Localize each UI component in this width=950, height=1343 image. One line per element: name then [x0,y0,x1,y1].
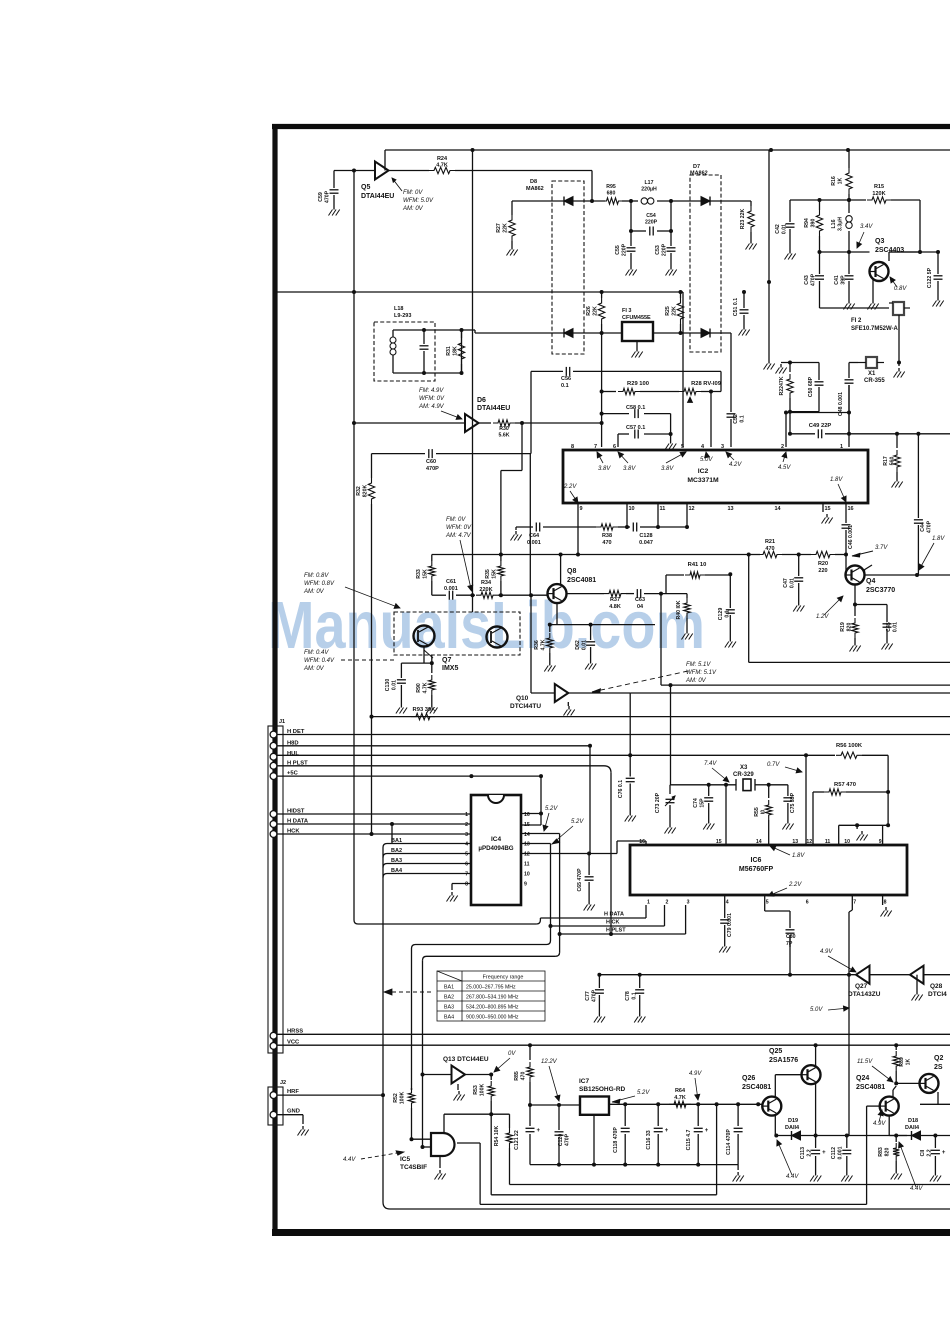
long wire y=292 from frame [277,291,683,293]
svg-text:C55: C55 [615,245,621,255]
wire R34 row down to Q7b [472,595,474,612]
svg-text:8: 8 [884,900,887,906]
svg-text:2SC3770: 2SC3770 [866,587,895,594]
capacitor C111 2.2 electrolytic [934,1136,936,1149]
svg-text:C78: C78 [625,991,631,1001]
svg-text:C54: C54 [646,213,656,219]
svg-text:0.01: 0.01 [581,640,587,650]
svg-text:R90: R90 [416,683,422,693]
IC IC7 SB1250HG-RD [580,1097,609,1115]
IC IC2 MC3371M [563,450,868,503]
transistor Q10 DTC144TU buffer [555,684,569,702]
capacitor C46 0.001 at pin16 [845,503,847,523]
svg-text:1.8V: 1.8V [792,853,805,859]
ground below R19 [854,642,856,646]
resistor R30 5.6K [479,422,492,424]
svg-text:X1: X1 [868,371,876,377]
svg-text:C128: C128 [639,533,652,539]
svg-text:4.5V: 4.5V [778,465,791,471]
wire y=252 Q3 base row [820,251,870,253]
transistor Q4 2SC3770 [846,566,865,585]
svg-text:9: 9 [524,882,527,888]
wire IC2 pin2 riser to C48 column [785,413,787,448]
wire R28 right corner down to IC2 pin4 [720,371,722,391]
svg-text:C44: C44 [920,522,926,532]
svg-text:R94: R94 [804,218,810,228]
svg-text:FM: 0.8V: FM: 0.8V [304,573,329,579]
AND gate IC5 TC4581F [431,1133,455,1156]
inductor L17 220uH [641,198,647,204]
svg-text:C130: C130 [385,679,391,692]
svg-text:DTCI4: DTCI4 [928,991,947,998]
svg-text:SB125OHG-RD: SB125OHG-RD [579,1086,626,1093]
wire R54 bottom staircase [510,1184,950,1186]
svg-text:534.200–800.895 MHz: 534.200–800.895 MHz [466,1005,519,1011]
wire from FI2 down to X1 crystal [898,315,900,363]
svg-text:0.7V: 0.7V [767,762,780,768]
connector pin H8D [270,742,277,749]
connector pin HRF [270,1092,277,1099]
resistor R89 1K [895,1045,897,1050]
resistor R20 220 [811,551,835,557]
ground below C73 [669,824,671,828]
svg-text:3: 3 [465,832,468,838]
resistor R64 4.7K [669,1101,691,1107]
IC6 pin8 ground [882,895,884,905]
transistor Q5 DTA144EU (digital) [375,162,389,180]
ground below C45 [886,640,888,644]
svg-text:H PLST: H PLST [606,928,626,934]
svg-text:IC7: IC7 [579,1078,590,1085]
ground below x=769 wire [768,360,770,364]
vertical wire x=354 from D6 row down to route [353,423,355,920]
resistor R57 470 row [813,791,824,793]
Q4 collector wire right [864,565,872,570]
svg-text:MA862: MA862 [526,186,544,192]
ground below C125 [729,638,731,642]
svg-text:470: 470 [602,540,611,546]
wire R93 row y=716.6 [372,716,950,718]
svg-text:R83: R83 [878,1147,884,1157]
svg-text:D7: D7 [693,164,700,170]
svg-text:C79 0.001: C79 0.001 [727,913,733,937]
svg-text:5.6K: 5.6K [499,433,510,439]
svg-text:0V: 0V [508,1051,516,1057]
svg-text:R29 100: R29 100 [627,381,649,387]
connector pin HCK [270,831,277,838]
vertical wire x=530.3 Q8 base column [529,454,531,596]
Q4 base wire [845,555,847,576]
svg-text:+: + [665,1128,669,1134]
svg-text:5: 5 [465,852,468,858]
capacitor C49 22P [788,432,792,436]
svg-text:15K: 15K [422,569,428,579]
svg-text:120K: 120K [872,191,885,197]
schematic border frame [272,124,277,1234]
ceramic filter FI3 CFUM455E [622,322,653,341]
svg-text:220K: 220K [479,587,492,593]
svg-text:FI 3: FI 3 [622,308,631,314]
resistor R38 470 [596,524,618,530]
svg-text:WFM: 0.8V: WFM: 0.8V [304,581,335,587]
ground at IC6 pin10 area [856,825,858,829]
wire route y=944.5 from IC4 pin13 to IC6 pin2 and R52 [412,945,416,949]
svg-text:C75 39P: C75 39P [790,792,796,813]
capacitor C56 0.1 wire [531,370,563,372]
svg-text:100K: 100K [399,1092,405,1105]
svg-text:Frequency range: Frequency range [483,975,524,981]
wire Q13 output [465,1074,491,1076]
capacitor C74 15P [708,785,710,796]
svg-text:5: 5 [766,900,769,906]
svg-text:C52: C52 [733,414,739,424]
svg-text:DAII4: DAII4 [905,1125,920,1131]
capacitor C59 470P [334,170,354,172]
svg-text:D62: D62 [575,640,581,650]
resistor R26 22K [601,292,603,298]
svg-text:FM: 0V: FM: 0V [403,190,423,196]
connector pin HRSS [270,1032,277,1039]
svg-text:15: 15 [716,839,722,845]
vertical wire x=472.5 from top rail down to mixer row [472,150,474,595]
svg-text:390: 390 [810,219,816,228]
ground at end of rail [737,1165,739,1170]
capacitor C80 7P at IC6 pin5 [764,895,766,911]
svg-text:IC4: IC4 [491,836,502,843]
svg-text:C43: C43 [804,275,810,285]
svg-text:0.001: 0.001 [527,540,541,546]
ground below R27 [511,246,513,250]
capacitor C48 0.001 [845,379,854,381]
svg-text:AM: 4.9V: AM: 4.9V [418,404,445,410]
svg-text:+: + [942,1150,946,1156]
svg-text:BA2: BA2 [391,848,402,854]
ground below C77 [598,1013,600,1017]
wire H PLST [277,765,604,767]
svg-text:DAII4: DAII4 [785,1125,800,1131]
ground below C113 [815,1172,817,1176]
svg-text:470P: 470P [926,520,932,533]
Q26 emitter down [774,1115,776,1136]
svg-text:HRSS: HRSS [287,1029,303,1035]
resistor R35 15K [500,555,502,562]
ground below C79 [724,943,726,947]
svg-text:11: 11 [660,506,666,512]
svg-text:4.9V: 4.9V [820,949,833,955]
svg-text:8: 8 [465,882,468,888]
transistor D6 DTAI44EU buffer [465,414,479,432]
transistor Q28 DTC14.. buffer [910,966,924,984]
wire H8D [277,745,590,747]
svg-text:12: 12 [689,506,695,512]
connector pin H DATA [270,821,277,828]
wire x=806 down to IC6 pin13 [805,755,807,845]
capacitor C114 470P [737,1104,739,1126]
svg-text:15: 15 [825,506,831,512]
resistor R25 22K [680,292,682,298]
svg-text:AM: 0V: AM: 0V [303,666,325,672]
svg-text:4.7K: 4.7K [540,639,546,650]
wire H DATA branch to BA1 bundle [391,824,393,844]
svg-text:220P: 220P [621,243,627,256]
svg-text:C113: C113 [800,1147,806,1159]
svg-text:C121 22: C121 22 [514,1130,520,1150]
svg-text:R16: R16 [831,176,837,186]
svg-text:5.2V: 5.2V [637,1090,650,1096]
capacitor C61 0.001 [448,591,450,600]
wire IC7 bottom to ground rail [593,1115,595,1165]
svg-text:C47: C47 [783,578,789,588]
capacitor C57 0.1 [618,433,629,435]
svg-text:R2247K: R2247K [779,376,785,395]
svg-text:C77: C77 [585,991,591,1001]
svg-text:0.01: 0.01 [781,224,787,234]
svg-text:3.8V: 3.8V [623,466,636,472]
wire +5C branch to IC4 pin16 and pin15 [469,774,473,778]
svg-text:M56760FP: M56760FP [739,866,774,873]
svg-text:R93 39K: R93 39K [413,707,437,713]
ground below FI3 [636,341,638,348]
svg-text:39P: 39P [840,275,846,285]
svg-text:C53: C53 [655,245,661,255]
svg-text:560: 560 [889,457,895,466]
wire IC7 output rail y=1104.3 [609,1103,763,1105]
svg-text:16: 16 [524,812,530,818]
svg-text:C58 0.1: C58 0.1 [626,405,645,411]
svg-text:Q26: Q26 [742,1075,755,1082]
wire Q27 to Q28 [870,974,911,976]
dashed pointer from note to Q10 [592,671,688,692]
ground below C55 [630,266,632,270]
svg-text:WFM: 0V: WFM: 0V [446,525,472,531]
wire C56 row corner down to C60 row [530,371,532,453]
capacitor C50 68P [818,363,820,381]
svg-text:4.8K: 4.8K [609,604,621,610]
svg-text:R89: R89 [899,1057,905,1067]
wire from R24 down at x=592 [591,171,593,202]
wire Q8 collector row to R37 [566,593,604,595]
wire R89 to Q22 [896,1082,920,1084]
svg-text:7: 7 [853,900,856,906]
svg-text:IMX5: IMX5 [442,665,458,672]
ground below C111 [934,1172,936,1176]
ground below C78 [639,1013,641,1017]
svg-text:D8: D8 [530,179,537,185]
svg-text:Q7: Q7 [442,657,451,664]
svg-text:WFM: 0V: WFM: 0V [419,396,445,402]
svg-text:5.2V: 5.2V [545,806,558,812]
Q8 collector wire to y=554 [560,555,562,585]
resistor R53 100K [490,1075,492,1081]
capacitor inside L18 [423,330,425,344]
svg-text:BA1: BA1 [391,838,402,844]
wire y=663.1 under Q7 [401,662,431,664]
wire y=201 diode row [512,200,605,202]
svg-text:220P: 220P [645,220,658,226]
capacitor C63 04 [636,589,638,598]
IC2 pin6 riser [617,434,619,447]
svg-text:9: 9 [580,506,583,512]
resistor R31 18K [461,330,463,338]
top rail wire y=150 [385,149,950,151]
capacitor C51 0.1 [743,292,745,308]
capacitor C116 33 electrolytic [657,1104,659,1126]
resistor R17 560 [896,434,898,448]
svg-text:2: 2 [666,900,669,906]
svg-text:C114 470P: C114 470P [726,1129,732,1155]
ground below Q13 [457,1084,459,1090]
wire HIDST to IC4 pin1 [277,813,471,815]
svg-text:1: 1 [647,900,650,906]
svg-text:D18: D18 [908,1118,918,1124]
resistor R95 680 [602,198,624,204]
svg-text:R57 470: R57 470 [834,782,856,788]
connector pin HIDST [270,811,277,818]
svg-text:5: 5 [681,444,684,450]
svg-text:L9-293: L9-293 [394,313,411,319]
svg-text:BA4: BA4 [391,868,403,874]
svg-text:AM: 0V: AM: 0V [303,589,325,595]
ground below C62 [590,660,592,664]
wire route y=924 to IC6 pin1 [358,923,536,925]
svg-text:R64: R64 [675,1088,686,1094]
svg-text:1K: 1K [905,1058,911,1065]
ground below C122 [937,297,939,301]
capacitor C118 470P [624,1104,626,1126]
svg-text:4.4V: 4.4V [910,1186,923,1192]
IC5 input wires [412,1138,432,1140]
diode D18 DAII4 [912,1131,921,1140]
IC4 pin8 ground [452,883,471,885]
svg-text:DTA143ZU: DTA143ZU [848,991,881,998]
wire H PLST branch down to IC6 pin3 row [610,773,612,934]
svg-text:Q8: Q8 [567,568,576,575]
resistor R37 4.8K [604,590,626,596]
inductor L16 3.3uH [848,200,850,213]
svg-text:BA4: BA4 [444,1015,454,1021]
svg-text:WFM: 5.0V: WFM: 5.0V [403,198,434,204]
svg-text:Q28: Q28 [930,983,943,990]
svg-text:Q5: Q5 [361,184,370,191]
svg-text:R27: R27 [496,223,502,233]
wire H8D branch down to IC4 pin12 row [589,746,591,854]
svg-text:2: 2 [781,444,784,450]
resistor R15 120K [867,197,891,203]
svg-text:2SC4081: 2SC4081 [567,577,596,584]
capacitor C121 22 electrolytic [529,1105,531,1126]
svg-text:0.1: 0.1 [631,992,637,999]
wire Q5 input to transistor Q5 [354,170,375,172]
svg-text:820K: 820K [362,485,368,498]
svg-text:AM: 0V: AM: 0V [685,678,707,684]
svg-text:1.2V: 1.2V [816,614,829,620]
svg-text:FM: 0V: FM: 0V [446,517,466,523]
long wire y=662 from R21 junction [748,555,750,663]
svg-text:14: 14 [756,839,762,845]
svg-text:6: 6 [806,900,809,906]
ground below C51 [743,326,745,330]
svg-text:220P: 220P [661,243,667,256]
svg-text:R36: R36 [534,640,540,650]
svg-text:R24: R24 [437,156,448,162]
wire y=1105 into IC7 [530,1104,580,1106]
resistor R55 10 [768,785,770,798]
ground below C42 [789,250,791,254]
transistor Q7a inside box [414,626,435,647]
capacitor C43 470P [819,252,821,274]
svg-text:22K: 22K [502,223,508,233]
svg-text:820: 820 [884,1148,890,1157]
svg-text:0.001: 0.001 [837,1146,843,1159]
IC2 pin riser stubs down [577,503,579,555]
svg-text:25.000–267.795 MHz: 25.000–267.795 MHz [466,985,516,991]
wire HRF to main vertical [277,1094,383,1096]
svg-text:2.2V: 2.2V [788,882,802,888]
svg-text:DTCI44TU: DTCI44TU [510,703,541,710]
wire y=595.2 Q8 base row [432,594,446,596]
ground below R23 [750,240,752,244]
ground under IC2 pin15 [822,503,824,512]
svg-text:2SC4081: 2SC4081 [856,1084,885,1091]
connector pin +5C [270,773,277,780]
svg-text:FM: 5.1V: FM: 5.1V [686,662,711,668]
crystal X1 CR-355 [897,361,901,365]
Q24 base wire from staircase [867,1105,880,1107]
transistor Q27 DTA143ZU buffer [856,966,870,984]
wire turns down to IC2 pin5 [682,292,684,447]
wire from tank down to D6 row [461,330,463,373]
transistor Q26 2SC4081 [762,1097,781,1116]
svg-text:6: 6 [613,444,616,450]
wire y=755.3 C76 row [547,754,835,756]
svg-text:0.8V: 0.8V [894,286,907,292]
svg-text:MC3371M: MC3371M [687,477,719,484]
svg-text:18K: 18K [452,346,458,356]
ground at Q10 [567,702,569,706]
svg-text:3.3µH: 3.3µH [837,217,843,231]
svg-text:C46 0.001: C46 0.001 [848,525,854,549]
IC6 pin16 riser [645,841,647,845]
ground below C130 [400,704,402,708]
svg-text:R25: R25 [665,306,671,316]
wire y=554 main row under IC2 [432,554,749,556]
svg-text:820: 820 [846,623,852,632]
svg-text:FM: 0.4V: FM: 0.4V [304,650,329,656]
wire y=200 R16 row [790,199,849,201]
svg-text:14: 14 [775,506,782,512]
svg-text:12.2V: 12.2V [541,1059,558,1065]
wire HCK to IC4 pin3 [277,833,471,835]
capacitor C130 0.01 [400,663,402,678]
wire R22/C50 bottom join [790,411,819,413]
svg-text:2SC4081: 2SC4081 [742,1084,771,1091]
svg-text:R33: R33 [416,569,422,579]
svg-text:Q13 DTCI44EU: Q13 DTCI44EU [443,1056,489,1063]
svg-text:Q27: Q27 [855,983,868,990]
svg-text:R23 22K: R23 22K [740,209,746,230]
svg-text:11: 11 [825,839,831,845]
svg-text:C122 5P: C122 5P [927,267,933,288]
Q24 collector to R89 node [892,1090,894,1098]
wire R56 right down [887,755,889,825]
svg-text:C65 470P: C65 470P [577,868,583,892]
svg-text:100K: 100K [479,1084,485,1097]
resistor R22 47K [789,363,791,373]
svg-text:L18: L18 [394,306,403,312]
svg-text:12: 12 [524,852,530,858]
svg-text:L17: L17 [645,180,654,186]
IC IC6 M56760FP [630,845,907,895]
